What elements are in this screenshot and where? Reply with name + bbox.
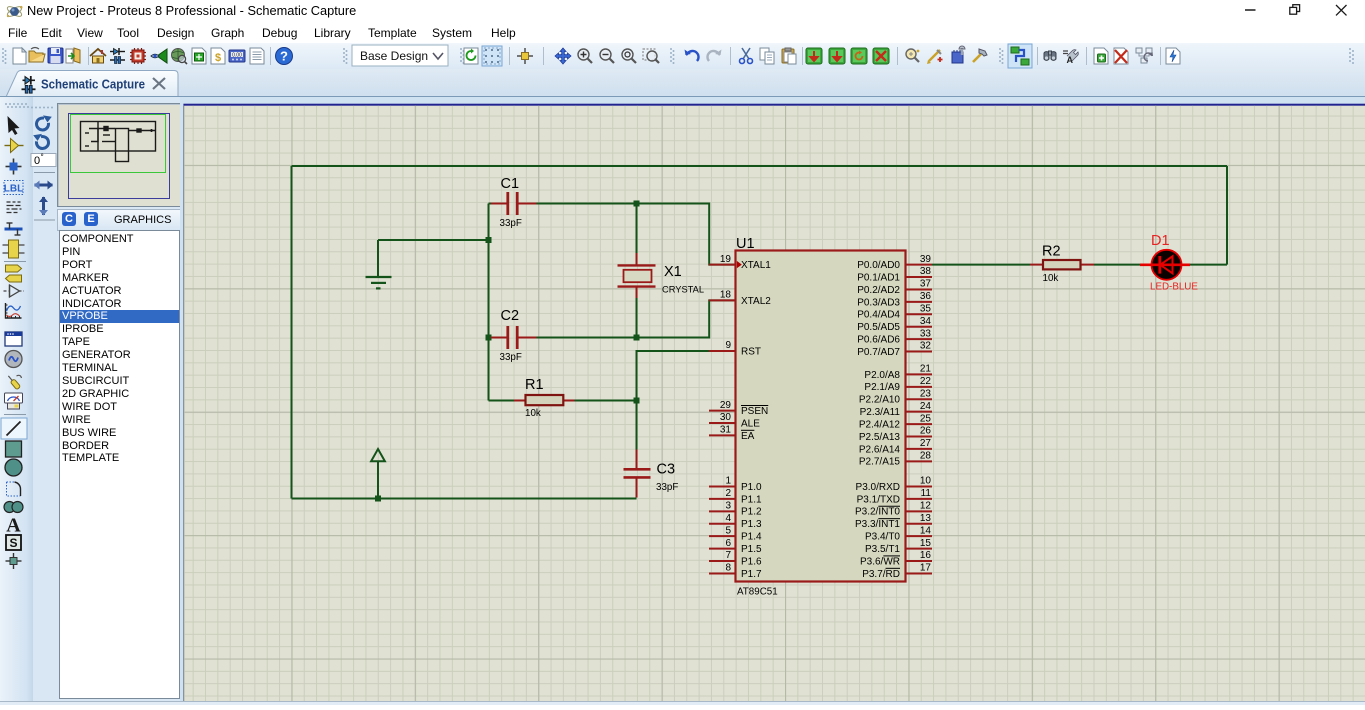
LED D1: [1152, 250, 1182, 280]
icon: new document: [13, 48, 26, 64]
component mode: [5, 139, 24, 153]
2D arc mode: [7, 482, 21, 496]
pin 9 RST: [709, 350, 736, 352]
2D marker mode: [6, 553, 22, 569]
pin 6 P1.5: [709, 548, 736, 550]
pin 14 P3.4/T0: [906, 535, 933, 537]
sheet border: [69, 114, 170, 199]
svg-text:4: 4: [725, 513, 731, 524]
2D symbol mode: [6, 535, 21, 550]
icon: zoom in: [578, 49, 592, 63]
icon: hammer: [973, 49, 987, 62]
icon: config chip: [952, 46, 965, 63]
angle box: [31, 154, 56, 167]
pin 35 P0.4/AD4: [906, 313, 933, 315]
pin 25 P2.4/A12: [906, 423, 933, 425]
svg-text:37: 37: [920, 279, 932, 290]
svg-text:10k: 10k: [1043, 273, 1059, 284]
wire ground horizontal: [378, 239, 489, 241]
mini schematic: [81, 122, 156, 162]
wire power terminal stem: [377, 461, 379, 498]
current probe mode: [5, 393, 23, 409]
svg-text:P3.4/T0: P3.4/T0: [865, 532, 900, 543]
crystal X1: [618, 253, 656, 298]
capacitor C3: [624, 450, 651, 498]
svg-text:XTAL1: XTAL1: [741, 260, 771, 271]
subcircuit mode: [3, 240, 25, 258]
pin 3 P1.2: [709, 510, 736, 512]
svg-text:P0.1/AD1: P0.1/AD1: [857, 272, 900, 283]
icon: wire autorouter (selected): [1008, 44, 1032, 68]
pin 1 P1.0: [709, 486, 736, 488]
resistor R2: [1030, 264, 1044, 266]
icon: bom: [211, 48, 225, 64]
svg-text:Schematic Capture: Schematic Capture: [41, 77, 145, 92]
icon: simulate arrows: [151, 49, 167, 63]
svg-text:AT89C51: AT89C51: [737, 587, 778, 598]
svg-text:0: 0: [34, 155, 40, 167]
svg-text:P2.5/A13: P2.5/A13: [859, 432, 901, 443]
svg-text:P2.6/A14: P2.6/A14: [859, 444, 901, 455]
icon: help: [276, 48, 293, 65]
capacitor C1: [491, 192, 537, 215]
separator: [34, 172, 55, 174]
svg-text:P3.5/T1: P3.5/T1: [865, 544, 900, 555]
minimap overview: [57, 103, 181, 207]
wire X1 top stem: [636, 204, 638, 254]
pin 31 EA: [709, 434, 736, 436]
panel background: [33, 97, 180, 705]
schematic edit area: [180, 97, 1365, 705]
left gutter: [180, 97, 183, 705]
rotate clockwise: [36, 115, 51, 130]
resistor R1: [514, 400, 526, 402]
svg-text:P0.7/AD7: P0.7/AD7: [857, 347, 900, 358]
svg-text:26: 26: [920, 426, 932, 437]
icon: grid toggle (pressed): [482, 46, 502, 66]
wire R2 to D1: [1094, 264, 1140, 266]
svg-text:P0.5/AD5: P0.5/AD5: [857, 322, 900, 333]
pin 23 P2.2/A10: [906, 398, 933, 400]
wire R1 left: [489, 400, 515, 402]
svg-text:11: 11: [921, 488, 932, 499]
svg-text:U1: U1: [736, 236, 755, 252]
icon: open folder: [29, 48, 45, 63]
wire label mode: [4, 181, 23, 195]
junction dot (636.5,203.5): [634, 201, 640, 207]
icon: pan: [555, 48, 571, 64]
svg-text:13: 13: [920, 513, 932, 524]
window buttons: minimize restore close: [1236, 0, 1365, 22]
junction dot (636.5,337.5): [634, 335, 640, 341]
svg-text:21: 21: [920, 364, 932, 375]
icon: undo: [685, 50, 699, 62]
svg-text:P3.6/WR: P3.6/WR: [860, 556, 900, 567]
object list: [59, 230, 180, 699]
svg-text:P3.3/INT1: P3.3/INT1: [855, 519, 900, 530]
wire C1 right to XTAL1: [535, 204, 735, 265]
pin 27 P2.6/A14: [906, 448, 933, 450]
drag dots: [31, 107, 53, 109]
pin 10 P3.0/RXD: [906, 486, 933, 488]
svg-text:P1.7: P1.7: [741, 569, 762, 580]
icon: paste: [782, 48, 796, 64]
pin 28 P2.7/A15: [906, 460, 933, 462]
grid background: [184, 106, 1365, 701]
svg-text:28: 28: [920, 451, 932, 462]
tape recorder mode: [5, 332, 22, 346]
svg-text:24: 24: [920, 401, 932, 412]
wire top rail: [292, 165, 1228, 167]
junction dot mode: [6, 159, 22, 175]
svg-text:C2: C2: [501, 308, 520, 324]
svg-text:10: 10: [920, 476, 932, 487]
icon: redo (disabled): [707, 50, 721, 62]
terminals mode: [6, 265, 22, 282]
svg-text:XTAL2: XTAL2: [741, 296, 771, 307]
icon: save floppy: [48, 48, 63, 63]
icon: copy: [760, 48, 774, 64]
separators: [89, 47, 1161, 65]
device pins mode: [4, 285, 24, 297]
wire C1 left tiny: [489, 203, 493, 205]
left border of edit window: [183, 106, 184, 701]
icon: import/exit door: [66, 48, 80, 63]
svg-text:$: $: [215, 52, 221, 64]
icon: block copy: [806, 48, 822, 64]
icon: gerber doc: [192, 48, 206, 64]
CE graphics header: [57, 209, 181, 231]
v-mirror arrow: [39, 197, 48, 216]
svg-text:9: 9: [725, 340, 731, 351]
svg-text:C3: C3: [657, 462, 676, 478]
2D path mode: [4, 502, 23, 513]
svg-text:P0.3/AD3: P0.3/AD3: [857, 297, 900, 308]
svg-text:18: 18: [720, 290, 732, 301]
svg-text:P1.2: P1.2: [741, 507, 762, 518]
pin 16 P3.6/WR: [906, 560, 933, 562]
svg-text:0.00: 0.00: [232, 53, 242, 59]
svg-text:P1.1: P1.1: [741, 494, 762, 505]
pin 11 P3.1/TXD: [906, 498, 933, 500]
2D box mode: [6, 441, 22, 457]
separator: [4, 414, 26, 416]
icon: property assign: [927, 50, 943, 64]
toolbar: [0, 43, 1365, 69]
title bar: [0, 0, 1365, 22]
svg-text:P0.6/AD6: P0.6/AD6: [857, 335, 900, 346]
svg-text:33pF: 33pF: [656, 482, 678, 493]
separator: [4, 261, 26, 263]
icon: cut: [740, 48, 753, 64]
svg-text:PSEN: PSEN: [741, 406, 768, 417]
svg-text:31: 31: [720, 425, 732, 436]
pin 2 P1.1: [709, 498, 736, 500]
svg-text:A: A: [6, 515, 21, 537]
XTAL1 clock arrow: [737, 261, 742, 268]
svg-text:36: 36: [920, 291, 932, 302]
svg-text:ALE: ALE: [741, 418, 760, 429]
voltage probe mode: [6, 374, 21, 389]
svg-text:D1: D1: [1151, 233, 1170, 249]
svg-text:P3.0/RXD: P3.0/RXD: [856, 482, 900, 493]
junction dot (488.5,337.5): [486, 335, 492, 341]
wire left rail: [291, 166, 293, 499]
wire D1 to right rail: [1190, 264, 1227, 266]
icon: goto sheet: [1136, 48, 1153, 63]
left side strip: [0, 97, 33, 705]
h-mirror arrow: [34, 181, 53, 190]
graph mode: [6, 303, 22, 318]
svg-text:C1: C1: [501, 176, 520, 192]
text script mode: [7, 202, 22, 213]
pin 22 P2.1/A9: [906, 386, 933, 388]
svg-text:P2.2/A10: P2.2/A10: [859, 395, 901, 406]
pin 21 P2.0/A8: [906, 373, 933, 375]
top gutter strip: [180, 97, 1365, 106]
svg-text:P3.7/RD: P3.7/RD: [862, 569, 900, 580]
icon: pcb layout: [130, 48, 146, 64]
icon: property tool: [1063, 50, 1078, 65]
svg-text:P1.3: P1.3: [741, 519, 762, 530]
icon: origin: [517, 48, 533, 64]
navy top border of edit window: [183, 104, 1365, 106]
buses mode: [5, 223, 23, 235]
microcontroller U1 AT89C51: [736, 251, 906, 582]
svg-text:10k: 10k: [525, 408, 541, 419]
pin 19 XTAL1: [709, 264, 736, 266]
svg-text:17: 17: [920, 563, 932, 574]
wire ground stem: [377, 240, 379, 276]
svg-text:23: 23: [920, 388, 932, 399]
icon: remove sheet: [1114, 48, 1128, 64]
pin 7 P1.6: [709, 560, 736, 562]
svg-text:8: 8: [725, 563, 731, 574]
pin 37 P0.2/AD2: [906, 288, 933, 290]
svg-text:P0.2/AD2: P0.2/AD2: [857, 285, 900, 296]
tab icon: [22, 76, 36, 93]
svg-text:LBL: LBL: [4, 184, 23, 195]
capacitor C2: [491, 326, 537, 349]
pin 30 ALE: [709, 422, 736, 424]
pin 36 P0.3/AD3: [906, 301, 933, 303]
svg-text:RST: RST: [741, 346, 761, 357]
svg-text:2: 2: [725, 488, 731, 499]
svg-text:P1.4: P1.4: [741, 532, 762, 543]
svg-text:P0.4/AD4: P0.4/AD4: [857, 310, 900, 321]
pin 13 P3.3/INT1: [906, 523, 933, 525]
pin 32 P0.7/AD7: [906, 351, 933, 353]
svg-text:16: 16: [920, 550, 932, 561]
pin 34 P0.5/AD5: [906, 326, 933, 328]
icon: zoom out: [600, 49, 614, 63]
icon: 3d globe: [172, 49, 188, 65]
svg-text:3: 3: [725, 501, 731, 512]
junction dot (636.5,400.5): [634, 398, 640, 404]
icon: block rotate: [851, 48, 867, 64]
2D circle mode: [5, 459, 22, 476]
icon: new sheet: [1094, 48, 1108, 64]
selection mode arrow: [8, 116, 20, 135]
svg-text:29: 29: [720, 400, 732, 411]
base design dropdown: [352, 45, 448, 66]
svg-text:35: 35: [920, 303, 932, 314]
svg-text:°: °: [41, 153, 44, 162]
svg-text:33pF: 33pF: [500, 218, 522, 229]
wire C2 right to XTAL2: [535, 300, 735, 337]
svg-text:CRYSTAL: CRYSTAL: [662, 285, 704, 295]
svg-text:P2.0/A8: P2.0/A8: [864, 370, 900, 381]
wire X1 bottom stem: [636, 298, 638, 338]
pin 38 P0.1/AD1: [906, 276, 933, 278]
svg-text:5: 5: [725, 525, 731, 536]
svg-text:?: ?: [280, 49, 288, 64]
svg-text:33: 33: [920, 328, 932, 339]
svg-text:X1: X1: [664, 264, 682, 280]
pin 26 P2.5/A13: [906, 436, 933, 438]
pin 18 XTAL2: [709, 299, 736, 301]
app icon: [6, 3, 23, 20]
menu bar: [0, 22, 1365, 43]
icon: design explorer doc: [250, 48, 264, 64]
icon: electrical rule check: [1166, 48, 1180, 64]
junction dot (378,498.5): [375, 496, 381, 502]
icon: instrument: [229, 50, 245, 62]
svg-text:R2: R2: [1042, 244, 1061, 260]
svg-text:P2.7/A15: P2.7/A15: [859, 457, 901, 468]
svg-text:LED-BLUE: LED-BLUE: [1150, 282, 1198, 293]
status sliver: [0, 701, 1365, 705]
generator mode: [5, 351, 22, 368]
svg-text:P1.6: P1.6: [741, 556, 762, 567]
wire R1 right to junction: [575, 400, 637, 402]
wire right rail: [1226, 166, 1228, 265]
tab bar: [0, 69, 1365, 97]
svg-text:27: 27: [920, 438, 932, 449]
svg-text:39: 39: [920, 254, 932, 265]
svg-text:1: 1: [725, 476, 731, 487]
viewport: [71, 115, 166, 173]
svg-text:P2.4/A12: P2.4/A12: [859, 419, 901, 430]
icon: zoom area: [643, 49, 659, 63]
icon: home: [90, 49, 106, 63]
pin 29 PSEN: [709, 410, 736, 412]
svg-text:P2.3/A11: P2.3/A11: [860, 407, 901, 418]
svg-text:12: 12: [920, 501, 932, 512]
svg-text:P2.1/A9: P2.1/A9: [864, 382, 900, 393]
pin 4 P1.3: [709, 523, 736, 525]
svg-text:P1.0: P1.0: [741, 482, 762, 493]
drag handles: [2, 48, 1004, 64]
ground: [366, 277, 392, 288]
separator: [34, 219, 55, 221]
svg-text:15: 15: [920, 538, 932, 549]
pin 12 P3.2/INT0: [906, 510, 933, 512]
pin 5 P1.4: [709, 535, 736, 537]
pin 24 P2.3/A11: [906, 411, 933, 413]
svg-text:25: 25: [920, 413, 932, 424]
svg-text:14: 14: [920, 525, 932, 536]
icon: find part: [906, 49, 919, 62]
svg-text:38: 38: [920, 266, 932, 277]
svg-text:EA: EA: [741, 431, 755, 442]
icon: block delete: [873, 48, 889, 64]
svg-text:33pF: 33pF: [500, 352, 522, 363]
icon: block move: [829, 48, 845, 64]
power terminal arrow: [371, 449, 385, 461]
pin 8 P1.7: [709, 572, 736, 574]
icon: refresh sheet: [464, 48, 478, 64]
svg-text:S: S: [9, 536, 17, 550]
pin 33 P0.6/AD6: [906, 338, 933, 340]
wire RST net vertical + horizontal: [637, 351, 710, 450]
icon: schematic capture: [110, 48, 125, 64]
svg-text:34: 34: [920, 316, 932, 327]
2D line mode (selected): [1, 418, 27, 439]
svg-text:A: A: [1067, 55, 1074, 65]
svg-text:19: 19: [720, 254, 732, 265]
svg-text:7: 7: [725, 550, 731, 561]
rotation controls column: [28, 105, 57, 225]
rotate anticlockwise: [33, 134, 48, 149]
svg-text:R1: R1: [525, 377, 544, 393]
svg-text:6: 6: [725, 538, 731, 549]
2D text mode: [6, 515, 21, 537]
svg-text:Base Design: Base Design: [360, 49, 428, 63]
wire pin39 to R2: [932, 264, 1030, 266]
pin 17 P3.7/RD: [906, 572, 933, 574]
svg-text:30: 30: [720, 412, 732, 423]
svg-text:32: 32: [920, 341, 932, 352]
junction dot (488.5,240): [486, 237, 492, 243]
icon: zoom extents: [622, 49, 636, 63]
svg-text:22: 22: [920, 376, 932, 387]
svg-text:P1.5: P1.5: [741, 544, 762, 555]
svg-text:P3.2/INT0: P3.2/INT0: [855, 507, 900, 518]
wire bottom rail: [292, 498, 637, 500]
drag handle dots: [5, 103, 29, 108]
wire left vertical: [488, 204, 490, 401]
icon: search: [1044, 51, 1056, 60]
svg-text:P0.0/AD0: P0.0/AD0: [857, 260, 900, 271]
pin 39 P0.0/AD0: [906, 264, 933, 266]
pin 15 P3.5/T1: [906, 548, 933, 550]
svg-text:P3.1/TXD: P3.1/TXD: [857, 494, 900, 505]
